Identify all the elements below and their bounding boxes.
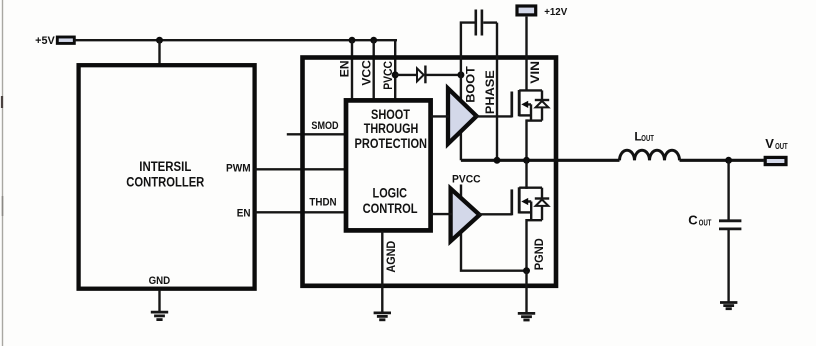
text LOGIC CONTROL [363, 186, 418, 216]
junction dot PVCC diode tap [392, 71, 399, 78]
driver buffer A2 [451, 189, 480, 242]
wire BOOT-PHASE rail through driver A1 [460, 75, 462, 160]
driver buffer A1 [448, 88, 477, 143]
wire PVCC rail through driver A2 to PGND [461, 185, 527, 271]
capacitor C-OUT [719, 221, 741, 229]
wire VCC pin [373, 40, 375, 100]
svg-text:VIN: VIN [528, 61, 542, 84]
svg-text:BOOT: BOOT [463, 66, 477, 103]
wire PHASE pin [496, 23, 498, 161]
svg-text:PROTECTION: PROTECTION [355, 136, 428, 151]
wire SMOD stub [287, 133, 348, 135]
ground AGND [374, 313, 391, 320]
junction dot EN tap [349, 37, 356, 44]
body diode D3 [535, 188, 549, 221]
junction dot PHASE pin [494, 157, 501, 164]
svg-text:VCC: VCC [359, 60, 373, 86]
transistor Q2 low-side MOSFET [512, 187, 542, 220]
diode D1 bootstrap [395, 66, 461, 84]
wire PWM to logic block [255, 168, 348, 170]
svg-text:C: C [688, 213, 698, 228]
label L-OUT [634, 129, 654, 143]
text INTERSIL CONTROLLER [126, 159, 204, 190]
svg-text:INTERSIL: INTERSIL [139, 159, 191, 174]
svg-text:+12V: +12V [544, 7, 567, 18]
wire phase node [461, 159, 620, 162]
wire output node to C-OUT [727, 160, 729, 220]
wire Q2 source to PGND [525, 219, 527, 271]
svg-text:EN: EN [237, 207, 251, 219]
svg-text:PWM: PWM [226, 163, 251, 175]
junction dot VCC tap [370, 37, 377, 44]
wire inductor to output node [680, 159, 764, 162]
wire VIN [525, 17, 527, 91]
svg-text:PVCC: PVCC [452, 173, 481, 185]
junction dot PGND node [523, 267, 530, 274]
svg-text:PHASE: PHASE [483, 70, 497, 114]
text SHOOT THROUGH PROTECTION [355, 107, 428, 151]
svg-text:CONTROLLER: CONTROLLER [126, 174, 204, 189]
ground PGND [518, 313, 535, 320]
label C-OUT [688, 213, 711, 228]
wire AGND stem [381, 231, 383, 312]
wire A1 output to Q1 gate [476, 115, 512, 117]
body diode D2 [535, 90, 549, 120]
transistor Q1 high-side MOSFET [512, 90, 542, 121]
label V-OUT [765, 136, 788, 151]
svg-text:THROUGH: THROUGH [364, 121, 419, 136]
wire PGND stem [525, 271, 527, 313]
supply +5V [35, 35, 74, 47]
wire EN pin [351, 40, 353, 100]
wire Q2 drain to phase node [525, 160, 527, 189]
svg-text:PGND: PGND [533, 238, 546, 270]
wire EN to THDN [255, 211, 348, 213]
wire +5V rail [75, 39, 398, 41]
driver IC U2 box [303, 58, 557, 286]
ground GND [151, 312, 168, 320]
svg-text:+5V: +5V [35, 35, 55, 47]
ground output [720, 303, 737, 309]
wire +5V down to controller [158, 40, 160, 66]
svg-text:LOGIC: LOGIC [373, 186, 408, 201]
svg-text:OUT: OUT [641, 134, 654, 143]
wire logic to A2 input [431, 213, 452, 215]
wire logic to A1 input [431, 115, 449, 117]
supply V-OUT [765, 157, 786, 164]
svg-text:SHOOT: SHOOT [371, 107, 411, 122]
wire GND stem [158, 290, 160, 312]
junction dot Q1-Q2 node [523, 157, 530, 164]
svg-text:CONTROL: CONTROL [363, 201, 418, 216]
supply +12V [517, 6, 567, 18]
svg-text:OUT: OUT [699, 218, 712, 227]
svg-text:V: V [765, 136, 774, 151]
svg-text:GND: GND [149, 275, 171, 287]
svg-text:THDN: THDN [309, 197, 336, 209]
svg-text:AGND: AGND [385, 241, 398, 273]
controller U1 box [79, 65, 255, 289]
logic block box [346, 100, 431, 230]
junction dot BOOT node [457, 71, 464, 78]
svg-text:SMOD: SMOD [311, 120, 338, 132]
junction dot output node [725, 157, 732, 164]
svg-text:OUT: OUT [775, 142, 788, 151]
inductor L-OUT [620, 150, 680, 160]
junction dot +5V to controller [156, 37, 163, 44]
svg-text:EN: EN [338, 60, 352, 77]
capacitor C-boot [461, 10, 497, 75]
wire A2 output to Q2 gate [479, 213, 512, 215]
wire C-OUT to ground [727, 229, 729, 302]
wire Q1 source to phase node [525, 119, 527, 160]
wire PVCC pin [394, 39, 396, 100]
